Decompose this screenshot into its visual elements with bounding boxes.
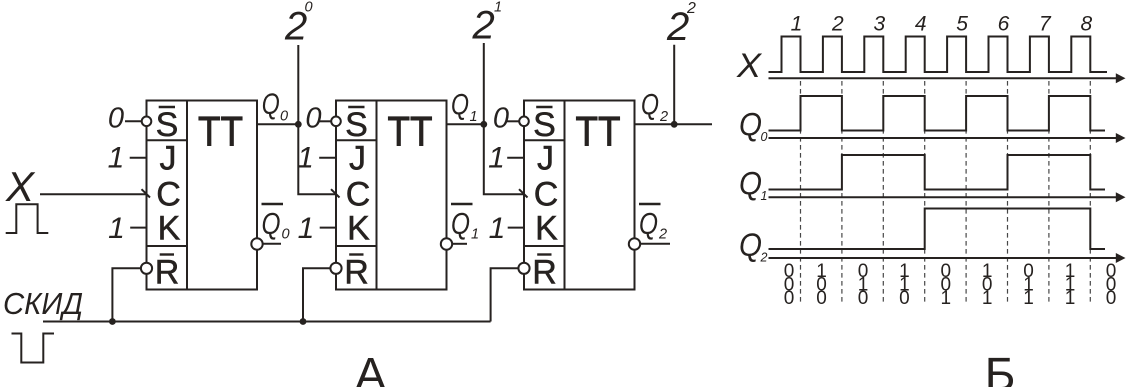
wire "1" to U1.K xyxy=(130,227,146,229)
svg-text:S: S xyxy=(345,106,368,144)
svg-text:0: 0 xyxy=(493,102,509,134)
flip-flop U2 (TT JK trigger) box xyxy=(336,101,447,290)
wire "1" to U2.K xyxy=(320,227,336,229)
svg-text:J: J xyxy=(349,140,366,178)
waveform Q0 xyxy=(769,96,1106,131)
svg-text:1: 1 xyxy=(982,288,993,309)
timing label Q2 xyxy=(739,227,768,265)
X positive pulse symbol xyxy=(6,204,49,233)
wire U3.Q2 output xyxy=(635,123,713,125)
flip-flop U3 (TT JK trigger) box xyxy=(524,101,635,290)
wire 2^2 riser xyxy=(673,45,675,125)
svg-text:0: 0 xyxy=(305,0,313,16)
svg-text:0: 0 xyxy=(305,102,321,134)
dashed guide lines at clock falling edges xyxy=(801,81,1091,305)
label Qbar2 xyxy=(639,204,667,243)
value labels Q1 state row xyxy=(784,275,1117,296)
svg-text:2: 2 xyxy=(666,5,689,49)
svg-text:X: X xyxy=(5,163,36,210)
U2 pin S (inverted) xyxy=(345,106,368,144)
U3 R input inversion circle xyxy=(518,263,529,274)
label 2^1 xyxy=(472,0,503,48)
wire X to U1.C xyxy=(40,193,146,195)
svg-text:Q: Q xyxy=(639,206,658,241)
svg-text:Q: Q xyxy=(739,166,762,202)
svg-text:1: 1 xyxy=(297,142,314,175)
svg-text:0: 0 xyxy=(280,109,288,125)
svg-text:K: K xyxy=(158,210,181,248)
svg-text:4: 4 xyxy=(915,13,927,36)
svg-text:1: 1 xyxy=(1065,288,1076,309)
svg-text:0: 0 xyxy=(816,288,827,309)
axis Q2 with arrow xyxy=(769,257,1119,259)
wire СКИД bus xyxy=(43,321,491,323)
svg-text:1: 1 xyxy=(470,109,478,125)
svg-text:C: C xyxy=(346,176,371,214)
wire riser to U2.R xyxy=(303,268,330,321)
U1 pin R (inverted) xyxy=(155,254,180,292)
svg-text:1: 1 xyxy=(471,227,479,243)
wire "1" to U3.K xyxy=(508,227,524,229)
label Qbar0 xyxy=(262,204,290,243)
U3 S input inversion circle xyxy=(519,117,529,127)
svg-text:X: X xyxy=(736,47,762,85)
svg-text:1: 1 xyxy=(761,189,768,203)
svg-text:S: S xyxy=(533,106,556,144)
waveform Q1 xyxy=(769,155,1106,190)
wire "0" to U3.S xyxy=(507,120,519,122)
U2 C dynamic-input tick xyxy=(331,189,340,197)
svg-text:А: А xyxy=(355,348,387,387)
U1 R input inversion circle xyxy=(141,263,152,274)
U1 S input inversion circle xyxy=(142,117,152,127)
svg-text:2: 2 xyxy=(659,109,668,125)
svg-text:1: 1 xyxy=(791,13,803,36)
wire 2^1 riser to U3.C xyxy=(484,43,523,194)
U1 Qbar output inversion circle xyxy=(251,238,262,249)
svg-text:0: 0 xyxy=(108,102,124,134)
svg-text:1: 1 xyxy=(108,212,125,245)
svg-text:C: C xyxy=(156,176,181,214)
wire riser to U1.R xyxy=(112,268,140,321)
axis X with arrow xyxy=(769,77,1119,79)
svg-text:K: K xyxy=(535,210,558,248)
value labels Q0 state row xyxy=(784,261,1117,282)
wire "1" to U3.J xyxy=(507,157,524,159)
svg-text:0: 0 xyxy=(282,227,290,243)
svg-text:5: 5 xyxy=(956,13,968,36)
svg-text:0: 0 xyxy=(899,288,910,309)
flip-flop U1 (TT JK trigger) box xyxy=(147,101,258,290)
svg-text:Б: Б xyxy=(985,348,1016,387)
U3 C dynamic-input tick xyxy=(519,189,528,197)
timing label Q0 xyxy=(739,107,768,145)
svg-text:C: C xyxy=(534,176,559,214)
wire U1.Qbar stub xyxy=(263,243,281,245)
value labels Q2 state row xyxy=(784,288,1117,309)
wire "1" to U1.J xyxy=(130,157,147,159)
wire "0" to U1.S xyxy=(125,120,142,122)
U1 pin S (inverted) xyxy=(156,106,179,144)
wire 2^0 riser to U2.C xyxy=(298,45,335,194)
node Q2 junction xyxy=(671,121,678,128)
junction СКИД/U1 xyxy=(109,318,116,325)
svg-text:Q: Q xyxy=(451,206,470,241)
U3 pin S (inverted) xyxy=(533,106,556,144)
svg-text:3: 3 xyxy=(873,13,885,36)
wire U3.Qbar stub xyxy=(640,243,670,245)
axis Q0 with arrow xyxy=(769,137,1119,139)
wire U2.Qbar stub xyxy=(452,243,467,245)
svg-text:1: 1 xyxy=(941,288,952,309)
label Q0 xyxy=(262,88,288,125)
СКИД negative pulse symbol xyxy=(12,334,55,363)
svg-text:J: J xyxy=(537,140,554,178)
svg-text:2: 2 xyxy=(472,4,495,48)
svg-text:2: 2 xyxy=(831,13,844,36)
svg-text:2: 2 xyxy=(658,227,667,243)
U1 C dynamic-input tick xyxy=(142,189,151,197)
wire riser to U3.R xyxy=(491,268,519,321)
waveform X xyxy=(769,37,1108,73)
U2 S input inversion circle xyxy=(331,117,341,127)
svg-text:СКИД: СКИД xyxy=(3,286,83,321)
svg-text:TT: TT xyxy=(198,108,243,155)
svg-text:7: 7 xyxy=(1039,13,1052,36)
svg-text:0: 0 xyxy=(761,130,768,144)
wire "0" to U2.S xyxy=(319,120,331,122)
svg-text:R: R xyxy=(532,254,557,292)
U2 pin R (inverted) xyxy=(344,254,369,292)
label Q2 xyxy=(641,89,668,126)
svg-text:1: 1 xyxy=(488,142,505,175)
U3 pin R (inverted) xyxy=(532,254,557,292)
svg-text:1: 1 xyxy=(494,0,502,16)
svg-text:0: 0 xyxy=(1106,288,1117,309)
svg-text:0: 0 xyxy=(858,288,869,309)
svg-text:1: 1 xyxy=(1023,288,1034,309)
svg-text:TT: TT xyxy=(388,108,433,155)
junction СКИД/U2 xyxy=(300,318,307,325)
svg-text:Q: Q xyxy=(262,206,281,241)
clock pulse numbers 1-8 xyxy=(791,13,1093,36)
timing label Q1 xyxy=(739,166,767,204)
svg-text:S: S xyxy=(156,106,179,144)
svg-text:0: 0 xyxy=(784,288,795,309)
svg-text:8: 8 xyxy=(1080,13,1092,36)
svg-text:Q: Q xyxy=(641,89,659,122)
waveform Q2 xyxy=(769,209,1106,250)
svg-text:TT: TT xyxy=(576,108,621,155)
U2 R input inversion circle xyxy=(330,263,341,274)
svg-text:J: J xyxy=(160,140,177,178)
wire U2.Q1 output xyxy=(447,123,484,125)
svg-text:6: 6 xyxy=(998,13,1010,36)
svg-text:Q: Q xyxy=(262,88,280,121)
svg-text:R: R xyxy=(344,254,369,292)
U3 Qbar output inversion circle xyxy=(629,238,640,249)
wire "1" to U2.J xyxy=(319,157,336,159)
axis Q1 with arrow xyxy=(769,196,1119,198)
node Q0 junction xyxy=(295,121,302,128)
node Q1 junction xyxy=(480,121,487,128)
label 2^0 xyxy=(284,0,313,49)
svg-text:K: K xyxy=(347,210,370,248)
svg-text:Q: Q xyxy=(739,107,762,143)
label Qbar1 xyxy=(451,204,479,243)
svg-text:2: 2 xyxy=(760,251,768,265)
svg-text:Q: Q xyxy=(451,89,469,122)
svg-text:Q: Q xyxy=(739,227,762,263)
wire U1.Q0 output xyxy=(257,123,298,125)
label Q1 xyxy=(451,89,478,126)
label 2^2 xyxy=(666,0,696,49)
svg-text:1: 1 xyxy=(489,212,506,245)
U2 Qbar output inversion circle xyxy=(441,238,452,249)
svg-text:2: 2 xyxy=(686,0,696,17)
svg-text:1: 1 xyxy=(108,142,125,175)
svg-text:R: R xyxy=(155,254,180,292)
svg-text:1: 1 xyxy=(298,212,315,245)
